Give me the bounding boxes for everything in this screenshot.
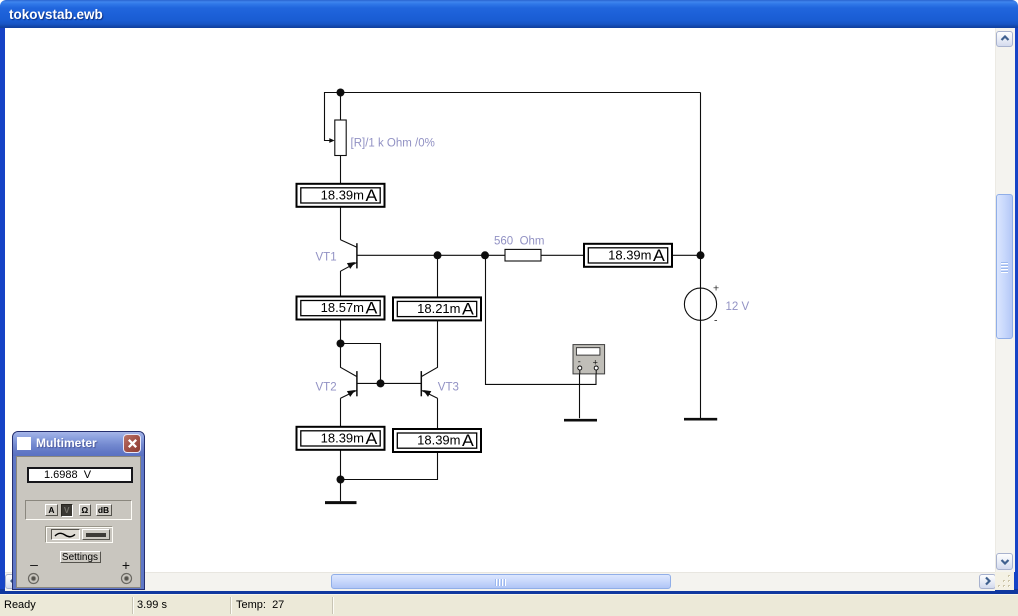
plus terminal socket <box>120 572 133 585</box>
wire: VT1 base rail to node B <box>357 254 485 256</box>
svg-text:VT3: VT3 <box>438 382 459 394</box>
waveform button group <box>46 527 113 544</box>
wire: ammeter A1 to VT1 collector <box>340 207 342 240</box>
ammeter A6 18.39mA <box>584 244 672 267</box>
svg-text:18.39m: 18.39m <box>321 430 364 445</box>
wire: ammeter A4 to ground node <box>340 450 342 501</box>
node A: top-rail junction dot <box>337 89 345 97</box>
multimeter display 1.6988 V <box>27 467 133 483</box>
svg-text:A: A <box>653 246 665 265</box>
ground symbol right rail <box>684 418 717 421</box>
ground symbol multimeter <box>564 419 597 422</box>
svg-text:18.39m: 18.39m <box>321 187 364 202</box>
wire: ammeter A5 to ground node <box>341 452 438 480</box>
Settings button <box>60 551 101 564</box>
wire: node to potentiometer top <box>340 93 342 121</box>
status bar <box>0 594 1018 616</box>
resistor R2 560 Ohm body <box>505 249 541 261</box>
svg-text:A: A <box>462 431 474 450</box>
wire: top rail from potentiometer node to +12V rail <box>341 92 701 94</box>
node B2 junction dot (to multimeter branch) <box>481 251 489 259</box>
wire: multimeter minus probe to ground <box>579 371 581 418</box>
wire: VT3 emitter to ammeter A5 <box>437 398 439 429</box>
svg-text:18.21m: 18.21m <box>417 301 460 316</box>
battery V1 12V source <box>684 282 719 326</box>
minus terminal label <box>27 556 41 572</box>
node F: emitter ground junction dot <box>337 476 345 484</box>
ammeter A4 18.39mA <box>297 427 385 450</box>
button dB <box>96 504 112 516</box>
wire: ammeter A6 to +12V rail <box>672 254 700 256</box>
svg-text:+: + <box>713 282 719 294</box>
svg-text:-: - <box>578 357 581 367</box>
wire: VT2 base to VT3 base <box>357 382 421 384</box>
ammeter A3 18.21mA <box>393 297 481 320</box>
svg-text:18.39m: 18.39m <box>417 433 460 448</box>
ammeter A1 18.39mA <box>297 184 385 207</box>
wire: potentiometer bottom to ammeter A1 <box>340 156 342 185</box>
button Ohm <box>79 504 92 516</box>
node E: VT2/VT3 base junction dot <box>377 379 385 387</box>
main application window titlebar <box>0 0 1018 28</box>
button AC (sine, pressed) <box>51 529 80 540</box>
multimeter window icon <box>17 437 31 450</box>
vertical scrollbar <box>995 28 1015 572</box>
svg-text:-: - <box>714 315 718 327</box>
svg-text:VT1: VT1 <box>316 251 337 263</box>
wire: multimeter plus probe to node B <box>486 255 597 384</box>
node C junction dot <box>337 340 345 348</box>
transistor VT1 (PNP) <box>341 240 357 271</box>
wire: VT1 emitter to ammeter A2 <box>340 271 342 297</box>
svg-text:A: A <box>366 299 378 318</box>
wire: node B to resistor R2 <box>485 254 505 256</box>
multimeter close button <box>123 434 141 453</box>
wire: +12V right rail <box>700 93 702 419</box>
ground symbol bottom <box>325 501 357 504</box>
multimeter icon XMM1 <box>573 345 605 375</box>
multimeter window titlebar <box>13 432 144 456</box>
svg-text:12 V: 12 V <box>726 301 750 313</box>
wire: node B down to ammeter A3 <box>437 255 439 297</box>
horizontal scrollbar <box>5 572 995 591</box>
button DC (pressed-out) <box>82 529 110 540</box>
minus terminal socket <box>27 572 40 585</box>
svg-text:A: A <box>366 186 378 205</box>
wire: potentiometer wiper loop <box>325 93 341 141</box>
wire: ammeter A2 to node C <box>340 319 342 344</box>
button V (pressed) <box>61 504 74 517</box>
multimeter mode button group <box>25 500 132 520</box>
svg-text:18.39m: 18.39m <box>608 247 651 262</box>
wire: resistor R2 to ammeter A6 <box>541 254 584 256</box>
svg-text:[R]/1 k Ohm /0%: [R]/1 k Ohm /0% <box>351 137 435 149</box>
transistor VT3 (PNP) <box>421 320 437 399</box>
node D: +12V rail junction dot <box>697 251 705 259</box>
svg-text:A: A <box>462 300 474 319</box>
svg-text:VT2: VT2 <box>316 382 337 394</box>
transistor VT2 (PNP diode-connected) <box>341 344 357 399</box>
svg-text:18.57m: 18.57m <box>321 300 364 315</box>
plus terminal label <box>119 557 133 573</box>
multimeter window title text <box>36 436 97 450</box>
node B junction dot (to A3) <box>434 251 442 259</box>
svg-text:560 Ohm: 560 Ohm <box>494 235 545 247</box>
multimeter body panel <box>16 456 141 588</box>
wire: node C to VT2/VT3 base node <box>341 344 381 384</box>
size grip corner <box>995 572 1014 590</box>
ammeter A2 18.57mA <box>297 297 385 320</box>
button A <box>45 504 58 516</box>
potentiometer R1 body <box>329 120 346 156</box>
multimeter instrument panel window <box>12 431 145 590</box>
svg-text:A: A <box>366 429 378 448</box>
wire: VT2 emitter to ammeter A4 <box>340 398 342 427</box>
ammeter A5 18.39mA <box>393 429 481 452</box>
